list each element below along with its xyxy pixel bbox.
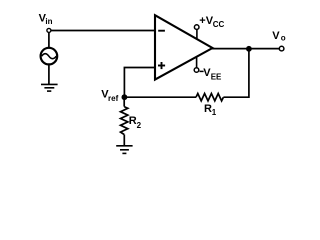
source V1 (AC sine source) — [41, 48, 58, 65]
wire op-amp output — [212, 48, 280, 50]
wire R2 to ground — [123, 135, 125, 146]
svg-text:1: 1 — [212, 108, 217, 117]
node Vref (junction dot) — [122, 94, 128, 100]
op-amp U1 — [155, 15, 213, 79]
wire Vin node to AC source — [48, 32, 50, 47]
svg-text:R: R — [129, 115, 137, 127]
label R1 — [204, 103, 217, 117]
terminal Vo (open circle) — [279, 46, 284, 51]
wire AC source to ground — [48, 65, 50, 85]
svg-text:+V: +V — [199, 15, 213, 27]
label +VCC — [199, 15, 224, 29]
wire Vin to op-amp minus input — [51, 30, 155, 32]
input terminal (open circle) — [47, 28, 51, 32]
svg-text:o: o — [281, 34, 286, 43]
resistor R2 — [121, 107, 128, 135]
node Vin label — [39, 12, 53, 26]
plus input symbol — [158, 65, 165, 67]
wire Vref node down to R2 — [123, 97, 125, 106]
svg-text:2: 2 — [137, 121, 142, 130]
resistor R1 — [196, 94, 223, 101]
-VEE terminal — [194, 56, 199, 72]
label -VEE — [200, 67, 223, 81]
ground (below R2) — [116, 146, 132, 154]
svg-text:in: in — [45, 17, 52, 26]
svg-text:CC: CC — [213, 20, 225, 29]
+VCC terminal — [194, 25, 199, 39]
node (output junction dot) — [246, 46, 252, 52]
svg-text:V: V — [272, 30, 280, 42]
label R2 — [129, 115, 142, 130]
label Vref — [101, 88, 118, 103]
svg-text:R: R — [204, 103, 212, 115]
wire Vref node up and right to op-amp plus input — [124, 68, 155, 98]
minus input symbol — [158, 30, 165, 32]
ground (below AC source) — [41, 84, 58, 91]
svg-text:EE: EE — [211, 72, 222, 81]
wire feedback (output node down to R1) — [223, 49, 249, 97]
svg-text:ref: ref — [108, 94, 119, 103]
wire R1 to Vref node — [124, 96, 196, 98]
label Vo — [272, 30, 285, 42]
